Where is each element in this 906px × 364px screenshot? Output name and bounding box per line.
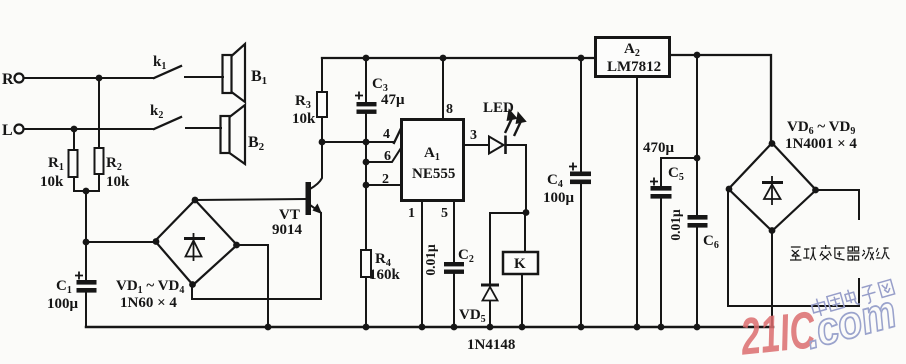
capacitor C3 — [355, 92, 377, 114]
node bridge2 top vertex — [769, 140, 776, 147]
wire A2 ground pin to bus — [636, 77, 638, 327]
char guo — [827, 293, 845, 311]
diode VD5 — [481, 285, 499, 301]
wire bridge2 right vertex to transformer terminal — [816, 190, 859, 219]
node bridge1 right vertex — [233, 242, 240, 249]
bridge1 inner diode — [184, 233, 205, 261]
capacitor C5 — [650, 178, 672, 199]
wire joining R1 R2 bottoms — [74, 190, 99, 192]
node rail-C6 — [694, 52, 701, 59]
wire C3 bottom down through pin nodes — [365, 113, 367, 185]
terminal L — [15, 125, 24, 134]
wire node to relay K — [524, 213, 526, 252]
svg-text:100μ: 100μ — [543, 190, 575, 206]
capacitor C4 — [569, 163, 591, 185]
svg-text:L: L — [2, 122, 13, 139]
wire node to C1 top plate — [85, 242, 87, 281]
svg-text:NE555: NE555 — [412, 166, 455, 182]
node LED-K-VD5 — [523, 209, 530, 216]
node bridge2 bottom vertex — [769, 227, 776, 234]
pin 6 lead — [366, 148, 401, 162]
transistor VT base bar — [306, 182, 312, 215]
svg-text:1N60 × 4: 1N60 × 4 — [120, 295, 177, 311]
node bridge1 top vertex — [192, 197, 199, 204]
char qi — [847, 247, 859, 260]
node bridge1 bottom vertex — [189, 281, 196, 288]
char zi — [860, 284, 878, 304]
svg-text:9014: 9014 — [272, 222, 303, 238]
wire tee to C5 — [661, 158, 697, 186]
wire C4 bottom to bus — [580, 185, 582, 327]
resistor R2 — [95, 148, 104, 174]
raw DC rail from bridge2 to A2 input — [670, 55, 771, 144]
wire rail down to C3 — [365, 58, 367, 103]
char zhong — [810, 297, 827, 318]
VT collector wire — [310, 142, 322, 189]
wire C1 bottom to ground bus — [85, 292, 87, 327]
pin 3 wire — [464, 144, 489, 146]
LED D1 — [489, 136, 506, 155]
char ci — [862, 248, 873, 260]
node C5 tee — [694, 155, 701, 162]
wire bridge1 right vertex down to bus — [237, 245, 268, 327]
wire R3 bottom to node — [321, 117, 323, 142]
wire bridge1 bottom vertex to VT emitter — [192, 213, 321, 299]
wire rail down to C4 — [580, 58, 582, 172]
bus junction dots — [265, 324, 701, 331]
svg-text:6: 6 — [384, 149, 391, 164]
wire L input to switch k2 — [24, 128, 154, 130]
node pin2-R4 — [363, 182, 370, 189]
capacitor C2 — [444, 262, 464, 274]
pin 8 wire to rail — [442, 58, 444, 119]
bridge rectifier VD6-VD9 — [729, 143, 817, 231]
svg-text:VT: VT — [279, 207, 300, 223]
svg-text:K: K — [514, 256, 526, 272]
wire VD5 bottom to bus — [489, 301, 491, 327]
wire R1 bottom — [73, 177, 75, 191]
node bus C5 — [658, 324, 665, 331]
resistor R3 — [317, 92, 327, 117]
node bus C2 — [451, 324, 458, 331]
+12V top rail — [322, 57, 596, 59]
node rail-C4 — [578, 55, 585, 62]
node bridge1 left vertex — [153, 238, 160, 245]
pin 2 lead — [366, 184, 401, 186]
svg-text:VD6 ~ VD9: VD6 ~ VD9 — [787, 119, 855, 137]
bridge rectifier VD1-VD4 — [155, 200, 237, 285]
label to power transformer secondary (Chinese) — [790, 245, 889, 260]
char ji — [876, 248, 889, 259]
wire down to C1 node — [85, 191, 87, 242]
char zhi — [790, 247, 801, 260]
svg-text:47μ: 47μ — [381, 92, 405, 108]
svg-text:100μ: 100μ — [47, 296, 79, 312]
resistor R1 — [69, 150, 78, 177]
VT emitter wire — [310, 205, 320, 212]
char gong — [803, 248, 816, 260]
wire C2 bottom to bus — [453, 274, 455, 327]
op-amp U1 timer box A1 NE555 — [402, 120, 464, 201]
svg-text:0.01μ: 0.01μ — [423, 244, 438, 276]
wire bridge2 bottom vertex to bus — [771, 231, 773, 327]
node on R line — [96, 75, 103, 82]
char ya — [834, 248, 845, 260]
node bus K — [519, 324, 526, 331]
svg-text:2: 2 — [382, 172, 389, 187]
relay K box — [503, 252, 538, 274]
svg-text:10k: 10k — [106, 174, 130, 190]
wire R1 top to L line — [73, 129, 75, 150]
node R3-collector — [319, 139, 326, 146]
wire LED cathode to relay node — [507, 145, 526, 212]
bridge2 inner diode — [762, 176, 783, 205]
wire node to bridge left vertex — [86, 241, 156, 243]
node bus C4 — [578, 324, 585, 331]
speaker B1 — [223, 44, 246, 102]
node on L line — [71, 126, 78, 133]
watermark zhongguo dianziwang lavender — [810, 278, 895, 319]
node rail-C3 — [363, 55, 370, 62]
switch k1 arm — [154, 66, 181, 78]
svg-text:5: 5 — [441, 206, 448, 221]
svg-text:10k: 10k — [40, 174, 64, 190]
capacitor C1 — [75, 272, 97, 293]
wire relay K bottom to bus — [521, 274, 523, 327]
svg-text:1N4001 × 4: 1N4001 × 4 — [785, 136, 857, 152]
svg-text:1: 1 — [408, 206, 415, 221]
char wang — [878, 279, 895, 297]
capacitor C6 — [688, 215, 708, 228]
node bus VD5 — [487, 324, 494, 331]
node R1 R2 junction — [83, 188, 90, 195]
svg-text:160k: 160k — [369, 267, 401, 283]
svg-text:LM7812: LM7812 — [607, 59, 661, 75]
wire bridge1 top vertex to VT base — [195, 199, 305, 200]
wire node to R4 — [365, 185, 367, 250]
switch k2 arm — [154, 117, 181, 129]
svg-text:10k: 10k — [292, 111, 316, 127]
node bus A2gnd — [634, 324, 641, 331]
wire R4 bottom to bus — [365, 277, 367, 327]
node C1 bridge junction — [83, 239, 90, 246]
resistor R4 — [361, 250, 371, 277]
char bian — [820, 245, 831, 260]
pin 5 wire with C2 to bus — [453, 201, 455, 262]
wire C6 bottom to bus — [696, 228, 698, 327]
svg-text:LED: LED — [483, 100, 514, 116]
speaker B2 — [221, 105, 246, 164]
terminal R — [15, 74, 24, 83]
LED arrows — [505, 111, 525, 136]
wire bridge2 left vertex to transformer terminal — [728, 189, 859, 306]
node rail-pin8 — [440, 55, 447, 62]
ground bus — [86, 326, 773, 329]
wire rail down to R3 — [321, 58, 323, 92]
wire R2 bottom — [98, 174, 100, 191]
svg-text:4: 4 — [383, 127, 390, 142]
wire node to VD5 — [490, 213, 526, 284]
node bridge2 right vertex — [812, 187, 819, 194]
node pin6 — [363, 159, 370, 166]
char dian — [844, 287, 860, 307]
regulator A2 LM7812 box — [596, 38, 670, 77]
wire rail down through C6 to bus — [696, 55, 698, 215]
svg-text:3: 3 — [470, 128, 477, 143]
svg-text:R: R — [2, 71, 14, 88]
transistor VT emitter arrow — [313, 204, 323, 215]
node bus R4 — [363, 324, 370, 331]
svg-text:470μ: 470μ — [643, 140, 675, 156]
svg-text:VD1 ~ VD4: VD1 ~ VD4 — [116, 278, 184, 296]
wire k1 to speaker B1 — [185, 76, 223, 78]
svg-text:1N4148: 1N4148 — [467, 337, 515, 353]
node bus pin1 — [419, 324, 426, 331]
wire node to pin4 diagonal — [322, 141, 394, 143]
wire C5 bottom to bus — [660, 199, 662, 327]
node bus C6 — [694, 324, 701, 331]
node bridge2 left vertex — [726, 186, 733, 193]
node bus bridge1 — [265, 324, 272, 331]
svg-text:8: 8 — [446, 102, 453, 117]
node C3-pin4 — [363, 139, 370, 146]
pin 4 lead diagonal — [394, 120, 405, 143]
wire R input to switch k1 — [24, 77, 154, 79]
svg-text:0.01μ: 0.01μ — [668, 209, 683, 241]
pin 1 wire to bus — [421, 201, 423, 327]
wire k2 to speaker B2 — [186, 127, 221, 129]
wire R2 top to R line — [98, 78, 100, 148]
